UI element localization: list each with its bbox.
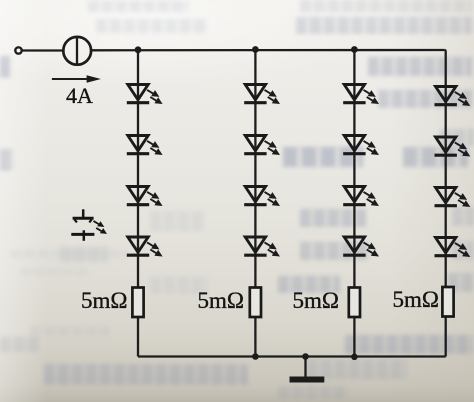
svg-text:4A: 4A [66,83,93,108]
svg-text:5mΩ: 5mΩ [393,287,439,312]
svg-text:5mΩ: 5mΩ [81,288,127,313]
